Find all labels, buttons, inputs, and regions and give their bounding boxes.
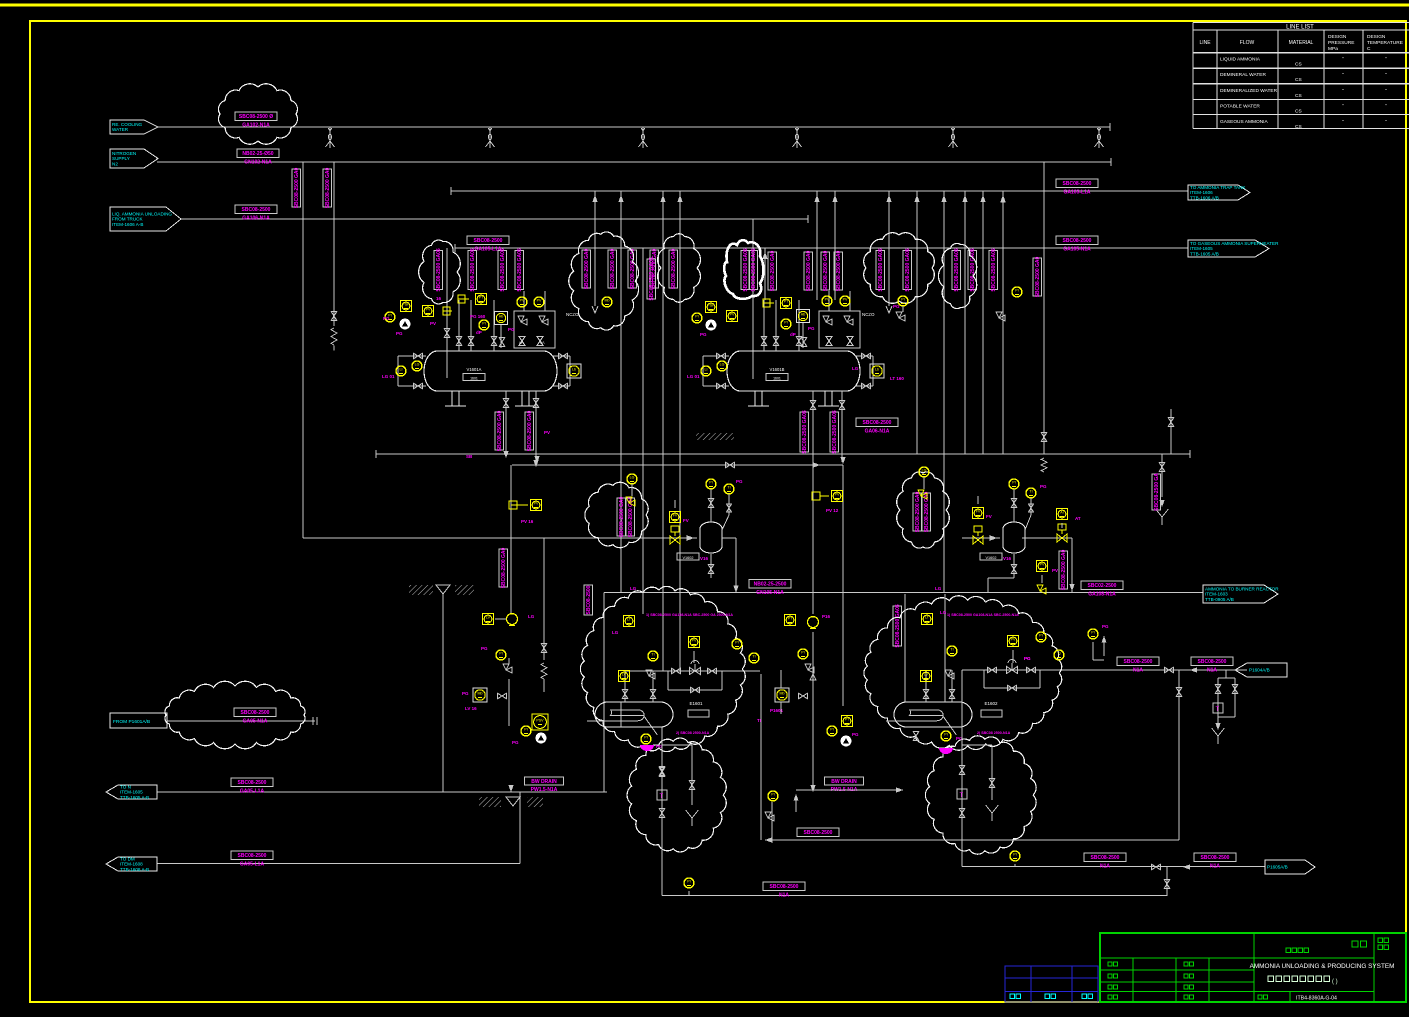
svg-text:PV: PV [520,299,525,303]
svg-text:TI: TI [651,653,654,657]
svg-text:SBC08-2500 GA05: SBC08-2500 GA05 [751,248,757,292]
svg-text:LG: LG [415,363,420,367]
svg-text:GA103-L1A: GA103-L1A [1064,189,1091,195]
svg-text:PG: PG [736,479,743,484]
svg-text:PI: PI [482,322,485,326]
svg-text:SBC08-2500: SBC08-2500 [241,710,270,716]
svg-text:PI: PI [735,641,738,645]
svg-text:SBC08-2500 GA0: SBC08-2500 GA0 [501,547,507,588]
svg-text:SBC08-2500: SBC08-2500 [804,830,833,836]
svg-text:PV: PV [430,321,436,326]
svg-text:PV: PV [1052,568,1058,573]
svg-text:-: - [1385,118,1387,124]
svg-text:SBC08-2500: SBC08-2500 [1063,181,1092,187]
svg-text:LG: LG [922,469,927,473]
svg-text:TEMPERATURE: TEMPERATURE [1367,40,1403,46]
svg-text:TTB-1605 A/B: TTB-1605 A/B [1190,251,1219,256]
svg-text:-: - [1342,71,1344,77]
svg-text:LINE LIST: LINE LIST [1286,25,1314,31]
svg-text:SBC08-2500 GA0: SBC08-2500 GA0 [915,491,921,532]
svg-text:PV: PV [534,502,539,506]
svg-text:SBC08-2500: SBC08-2500 [242,207,271,213]
svg-text:SBC08-2500: SBC08-2500 [1091,855,1120,861]
svg-text:TI: TI [752,655,755,659]
svg-text:BW DRAIN: BW DRAIN [831,779,857,785]
svg-text:PG: PG [383,316,390,321]
svg-text:SBC08-2500 GA05: SBC08-2500 GA05 [895,604,901,648]
svg-text:dP: dP [790,332,796,337]
svg-text:LV: LV [622,673,627,677]
svg-text:PV: PV [835,493,840,497]
svg-text:PG: PG [462,691,469,696]
svg-text:SBC08-2500: SBC08-2500 [474,238,503,244]
svg-text:SBC08-2500: SBC08-2500 [1124,659,1153,665]
svg-text:PV: PV [1040,563,1045,567]
svg-text:SBC08-2500: SBC08-2500 [770,884,799,890]
svg-text:-: - [1342,102,1344,108]
svg-text:PT: PT [479,296,484,300]
svg-text:-: - [1385,87,1387,93]
svg-text:TI: TI [1029,490,1032,494]
svg-text:-: - [1342,118,1344,124]
svg-text:PI: PI [709,481,712,485]
svg-text:CS: CS [1295,62,1302,68]
svg-text:PI: PI [771,793,774,797]
svg-text:TI: TI [950,648,953,652]
svg-text:N1A: N1A [1210,863,1220,869]
svg-text:PV: PV [1011,638,1016,642]
svg-text:E1602: E1602 [984,701,998,706]
svg-text:PG: PG [1024,656,1031,661]
svg-text:SBC08-2500 GA0: SBC08-2500 GA0 [294,167,300,208]
svg-text:-: - [1385,102,1387,108]
svg-text:-: - [1342,87,1344,93]
svg-text:LG: LG [720,363,725,367]
svg-text:N1A: N1A [1207,667,1217,673]
svg-text:SBC08-2500 GA05: SBC08-2500 GA05 [517,248,523,292]
svg-text:FROM P1601A/B: FROM P1601A/B [113,719,150,725]
svg-text:PI: PI [901,298,904,302]
svg-text:SBC08-2500 GA05: SBC08-2500 GA05 [743,248,749,292]
svg-text:DESIGN: DESIGN [1328,34,1347,40]
svg-text:SBC08-2500 GA0: SBC08-2500 GA0 [497,410,503,451]
svg-text:PSH: PSH [707,304,715,308]
svg-text:Mb: Mb [478,692,483,696]
svg-text:DEMINERALIZED WATER: DEMINERALIZED WATER [1220,88,1278,94]
svg-text:TI: TI [757,718,761,723]
svg-text:FV: FV [986,514,992,519]
svg-text:SBC08-2500 GA0: SBC08-2500 GA0 [836,250,842,291]
svg-text:PI: PI [1039,634,1042,638]
svg-text:P16: P16 [822,614,831,619]
svg-text:N2: N2 [112,161,118,166]
svg-text:TTB-1606 A/B: TTB-1606 A/B [1190,195,1219,200]
svg-text:PI: PI [784,321,787,325]
svg-text:AT: AT [1075,516,1081,521]
svg-text:PRESSURE: PRESSURE [1328,40,1354,46]
svg-text:LG: LG [612,630,619,635]
svg-text:N1A: N1A [779,892,789,898]
svg-text:P1604A/B: P1604A/B [1249,668,1270,673]
svg-text:LIQUID AMMONIA: LIQUID AMMONIA [1220,57,1261,63]
svg-text:SBC08-2500: SBC08-2500 [586,585,592,614]
svg-text:16: 16 [436,296,442,301]
svg-text:DESIGN: DESIGN [1367,34,1386,40]
svg-text:PW1.5-N1A: PW1.5-N1A [531,787,558,793]
svg-text:PI: PI [644,736,647,740]
svg-text:LV: LV [486,616,491,620]
svg-text:CS: CS [1295,77,1302,83]
svg-text:BW DRAIN: BW DRAIN [531,779,557,785]
svg-text:PG: PG [893,304,900,309]
svg-text:SBC08-2500 GA05: SBC08-2500 GA05 [436,248,442,292]
svg-text:TI: TI [1057,652,1060,656]
svg-text:LI: LI [705,368,708,372]
svg-text:PV: PV [537,299,542,303]
svg-text:GASEOUS AMMONIA: GASEOUS AMMONIA [1220,119,1269,125]
svg-text:dP: dP [476,330,482,335]
svg-text:Hb: Hb [801,313,806,317]
svg-text:CS: CS [1295,124,1302,130]
svg-text:LINE: LINE [1199,40,1211,46]
svg-text:PV: PV [692,639,697,643]
svg-text:SBC08-2500 GA0: SBC08-2500 GA0 [619,496,625,537]
svg-text:1601: 1601 [773,377,781,381]
svg-text:1601: 1601 [470,377,478,381]
svg-text:1) SBC08-2500 GA108-N1A SBC-25: 1) SBC08-2500 GA108-N1A SBC-2500 GA 2500… [646,613,733,617]
svg-text:PG: PG [396,331,403,336]
svg-text:SBC08-2500: SBC08-2500 [1063,238,1092,244]
svg-text:SBC08-2500 GA0: SBC08-2500 GA0 [770,250,776,291]
svg-text:PT: PT [845,718,850,722]
svg-text:GA06-N1A: GA06-N1A [865,428,890,434]
svg-text:GA106-N1A: GA106-N1A [242,215,270,221]
svg-text:GA105-N1A: GA105-N1A [1063,246,1091,252]
svg-text:P1605A/B: P1605A/B [1267,865,1288,870]
svg-text:TI: TI [727,486,730,490]
svg-text:SBC08-2500 GA05: SBC08-2500 GA05 [649,257,655,301]
svg-text:SBC08-2500 GA0: SBC08-2500 GA0 [584,248,590,289]
svg-text:GA05-L1A: GA05-L1A [240,788,265,794]
svg-text:PT: PT [784,300,789,304]
svg-text:PV: PV [426,308,431,312]
svg-text:PG: PG [481,646,488,651]
svg-text:LG: LG [935,586,942,591]
svg-text:TTB-1605 A-B: TTB-1605 A-B [120,795,149,800]
svg-text:V16: V16 [700,556,709,561]
svg-text:V16: V16 [1003,556,1012,561]
svg-text:PG 160: PG 160 [470,314,486,319]
svg-text:1) SBC08-2500 GA108-N1A SBC-25: 1) SBC08-2500 GA108-N1A SBC-2500-N1A [947,613,1019,617]
svg-text:LT 160: LT 160 [890,376,904,381]
svg-text:NB02-25-2500: NB02-25-2500 [754,582,787,588]
svg-text:PV: PV [825,298,830,302]
svg-text:SBC08-2500 GA05: SBC08-2500 GA05 [802,410,808,454]
svg-text:LI: LI [400,368,403,372]
svg-text:LG 01: LG 01 [687,374,700,379]
svg-text:SBC08-2500 GA05: SBC08-2500 GA05 [970,248,976,292]
svg-text:-: - [1385,71,1387,77]
svg-text:GA05-L1A: GA05-L1A [240,861,265,867]
svg-text:Mb: Mb [605,299,610,303]
svg-text:PI: PI [944,733,947,737]
svg-text:SBC08-2500 GA05: SBC08-2500 GA05 [470,248,476,292]
svg-text:SBC08-2500: SBC08-2500 [1198,659,1227,665]
svg-text:GA108-N1A: GA108-N1A [1088,591,1116,597]
svg-text:SBC08-2500: SBC08-2500 [1201,855,1230,861]
svg-text:PG: PG [852,732,859,737]
svg-text:TTB-0905 A/B: TTB-0905 A/B [1205,597,1234,602]
svg-text:Mb: Mb [780,692,785,696]
svg-text:-: - [1385,56,1387,62]
svg-text:PI: PI [1013,853,1016,857]
svg-text:SBC08-2500 GA05: SBC08-2500 GA05 [832,410,838,454]
svg-text:SBC08-2500 Ø: SBC08-2500 Ø [239,114,273,120]
svg-text:PI: PI [1015,289,1018,293]
svg-text:GA102-N1A: GA102-N1A [242,122,270,128]
svg-text:FLOW: FLOW [1240,40,1255,46]
svg-text:PSH: PSH [402,303,410,307]
svg-text:LG: LG [528,614,535,619]
svg-text:ITB4-8360A-G-04: ITB4-8360A-G-04 [1296,996,1337,1002]
svg-text:LV: LV [924,673,929,677]
svg-text:PSV: PSV [536,719,544,723]
svg-text:SBC08-2500 GA05: SBC08-2500 GA05 [878,248,884,292]
svg-text:SB: SB [466,454,473,459]
svg-text:Lb: Lb [875,368,879,372]
svg-text:V1601B: V1601B [770,367,785,372]
svg-text:AI: AI [1060,511,1063,515]
svg-text:LV 16: LV 16 [465,706,477,711]
svg-text:SBC08-2500: SBC08-2500 [863,420,892,426]
svg-text:Hb: Hb [499,315,504,319]
svg-text:PV 16: PV 16 [521,519,534,524]
svg-text:WATER: WATER [112,127,129,132]
svg-text:N1A: N1A [1100,863,1110,869]
svg-text:SBC08-2500 GA0: SBC08-2500 GA0 [823,250,829,291]
svg-text:LG: LG [630,476,635,480]
svg-text:LG: LG [940,610,947,615]
svg-text:PI: PI [695,315,698,319]
svg-text:LG: LG [852,366,859,371]
svg-text:V1602: V1602 [683,556,694,560]
svg-text:T: T [960,793,964,799]
svg-text:SBC08-2500 GA0: SBC08-2500 GA0 [671,248,677,289]
svg-text:LG: LG [630,586,637,591]
svg-text:-: - [1342,56,1344,62]
svg-text:PI: PI [499,652,502,656]
svg-text:PG: PG [700,332,707,337]
svg-text:PG: PG [808,326,815,331]
svg-text:PG: PG [512,740,519,745]
svg-text:NB02-25-Ø50: NB02-25-Ø50 [242,151,273,157]
svg-text:DEMINERAL WATER: DEMINERAL WATER [1220,72,1266,78]
svg-text:PT: PT [788,617,793,621]
svg-text:MATERIAL: MATERIAL [1289,40,1314,46]
svg-text:PV: PV [843,298,848,302]
svg-text:SBC08-2500: SBC08-2500 [238,853,267,859]
svg-text:CS: CS [1295,108,1302,114]
svg-text:SBC08-2500 GA05: SBC08-2500 GA05 [991,248,997,292]
svg-text:2) SBC08 2500-N1A: 2) SBC08 2500-N1A [676,731,710,735]
svg-text:ITEM-1606 A-B: ITEM-1606 A-B [112,222,143,227]
svg-text:MPa: MPa [1328,46,1338,52]
svg-text:SBC08-2500 GA0: SBC08-2500 GA0 [325,167,331,208]
svg-text:CS: CS [1295,93,1302,99]
svg-text:PI: PI [524,728,527,732]
svg-text:FV: FV [683,518,689,523]
svg-text:NC≠O: NC≠O [566,312,579,317]
svg-text:PG: PG [508,327,515,332]
svg-text:PI: PI [1091,631,1094,635]
svg-text:T: T [1216,707,1220,713]
svg-text:SBC08-2500 GA05: SBC08-2500 GA05 [905,248,911,292]
svg-text:PG: PG [1102,624,1109,629]
svg-text:V1602: V1602 [986,556,997,560]
svg-text:PV 12: PV 12 [826,508,839,513]
svg-text:T: T [660,794,664,800]
svg-text:( ): ( ) [1332,979,1338,985]
svg-text:PV: PV [730,313,735,317]
svg-text:SBC08-2500 GA0: SBC08-2500 GA0 [527,410,533,451]
svg-text:SBC08-2500 GA0: SBC08-2500 GA0 [1035,256,1041,297]
svg-text:LG 01: LG 01 [382,374,395,379]
svg-text:NC≠O: NC≠O [862,312,875,317]
svg-text:PI: PI [1012,481,1015,485]
svg-text:C: C [1367,46,1371,52]
svg-text:SBC08-2500 GA0: SBC08-2500 GA0 [610,248,616,289]
svg-text:PV: PV [544,430,550,435]
svg-text:PG: PG [1040,484,1047,489]
svg-text:V1601A: V1601A [467,367,482,372]
svg-text:AMMONIA UNLOADING & PRODUCING: AMMONIA UNLOADING & PRODUCING SYSTEM [1250,963,1395,970]
svg-text:SBC08-2500 GA0: SBC08-2500 GA0 [806,250,812,291]
svg-text:SBC08-2500 GA05: SBC08-2500 GA05 [500,248,506,292]
svg-text:PI: PI [830,728,833,732]
svg-text:GA05-N1A: GA05-N1A [243,718,268,724]
svg-text:TTB-1608 A-B: TTB-1608 A-B [120,867,149,872]
svg-text:SBC08-2500 GA0: SBC08-2500 GA0 [1061,549,1067,590]
svg-text:FV: FV [976,510,981,514]
svg-text:SBC08-2500: SBC08-2500 [238,780,267,786]
svg-text:GN102-N1A: GN102-N1A [244,159,272,165]
svg-text:Lb: Lb [572,368,576,372]
svg-text:N1A: N1A [1133,667,1143,673]
svg-text:PI: PI [801,651,804,655]
svg-text:E1601: E1601 [689,701,703,706]
svg-text:SBC08-2500 GA05: SBC08-2500 GA05 [954,248,960,292]
svg-text:FV: FV [673,514,678,518]
svg-text:2) SBC08 2500-N1A: 2) SBC08 2500-N1A [977,731,1011,735]
svg-text:GN105-N1A: GN105-N1A [756,590,784,596]
svg-text:SBC02-2500: SBC02-2500 [1088,583,1117,589]
svg-text:SBC08-2500 GA: SBC08-2500 GA [1154,473,1160,511]
svg-text:PI: PI [687,880,690,884]
svg-text:POTABLE WATER: POTABLE WATER [1220,103,1260,109]
